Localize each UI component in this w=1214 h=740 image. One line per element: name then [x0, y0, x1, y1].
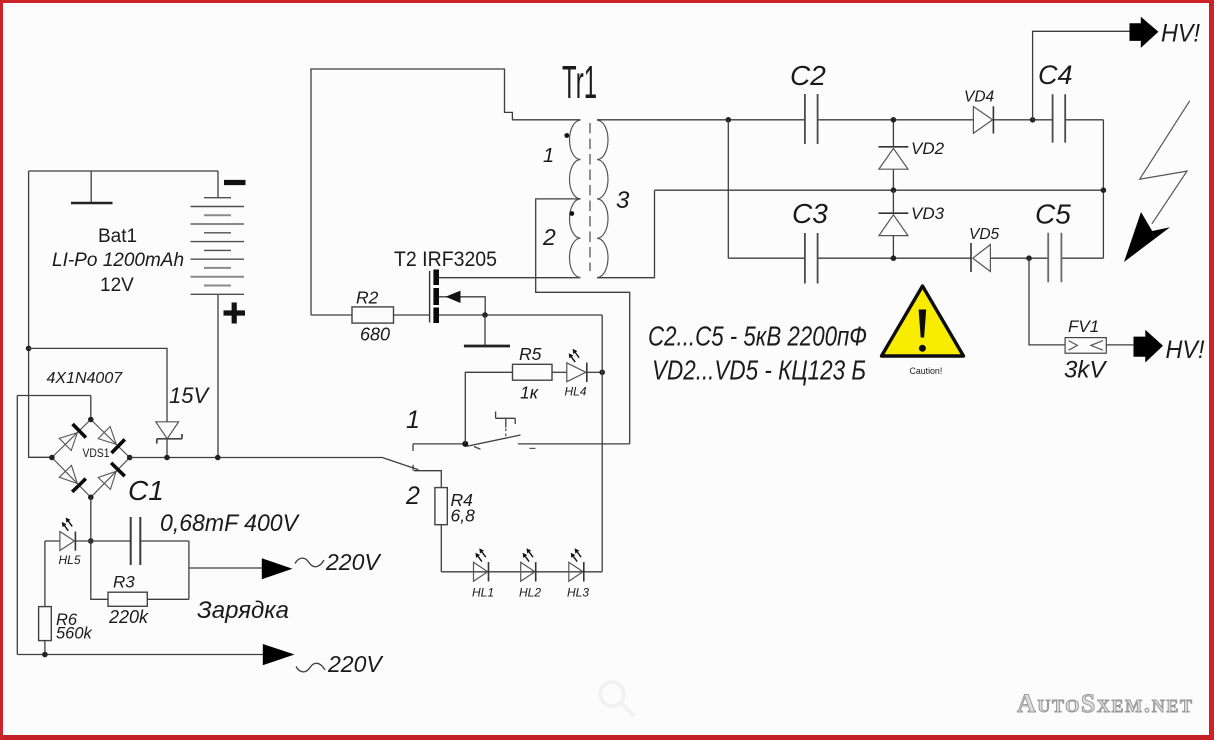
wire left outer drop	[29, 171, 52, 457]
diode VD5	[969, 226, 1000, 272]
node HL4 junction	[599, 370, 605, 376]
svg-text:6,8: 6,8	[451, 506, 476, 526]
svg-text:LI-Po 1200mAh: LI-Po 1200mAh	[52, 250, 184, 271]
zener VD 15V	[156, 383, 211, 458]
winding 2	[570, 199, 581, 278]
LED HL3	[567, 548, 589, 599]
svg-text:HL1: HL1	[472, 586, 494, 600]
svg-text:VD5: VD5	[969, 226, 1000, 243]
wire FV1 to HV	[1106, 344, 1133, 346]
LED HL4	[565, 349, 603, 399]
svg-text:C5: C5	[1035, 199, 1071, 230]
svg-text:3: 3	[616, 187, 630, 214]
LED HL5	[45, 518, 91, 568]
arrow HV mid	[1134, 330, 1205, 364]
node bridge top	[88, 417, 94, 423]
node battery-bus	[215, 455, 221, 461]
svg-text:VD3: VD3	[911, 204, 945, 223]
wire tap to switch pos1	[536, 199, 630, 444]
core	[589, 123, 591, 271]
wire cascade left drop	[727, 120, 729, 258]
ground (T2 source)	[464, 315, 510, 346]
resistor R5	[465, 344, 567, 444]
wire secondary top rail	[597, 120, 1103, 258]
svg-text:FV1: FV1	[1068, 317, 1099, 336]
node switch-R5 junction	[462, 441, 468, 447]
svg-text:VDS1: VDS1	[83, 446, 110, 460]
svg-text:R5: R5	[519, 344, 542, 364]
wire HV top	[1033, 31, 1130, 120]
svg-text:HV!: HV!	[1161, 20, 1200, 48]
svg-text:HV!: HV!	[1166, 336, 1205, 364]
svg-text:1: 1	[406, 406, 420, 434]
diode VD2	[879, 120, 945, 190]
capacitor C2	[790, 60, 826, 144]
node R6 bottom	[42, 652, 48, 658]
svg-text:15V: 15V	[169, 383, 210, 408]
svg-text:VD4: VD4	[964, 89, 995, 106]
arrow HV top	[1130, 17, 1201, 48]
diode VD3	[879, 190, 945, 258]
node middle rail right end	[1101, 187, 1107, 193]
svg-text:Caution!: Caution!	[910, 366, 943, 376]
svg-text:220V: 220V	[325, 549, 382, 575]
capacitor C3	[792, 198, 828, 284]
push-button SB	[467, 412, 630, 450]
node source junction	[482, 312, 488, 318]
wire bottom 220V line	[17, 654, 263, 656]
wire LED row	[441, 315, 602, 572]
svg-text:Tr1: Tr1	[562, 56, 597, 108]
node VD3 bottom	[891, 255, 897, 261]
wire bridge top stub	[90, 396, 92, 420]
node top rail tee	[726, 117, 732, 123]
node bridge right	[127, 455, 133, 461]
legend text	[648, 321, 867, 386]
svg-text:220k: 220k	[108, 607, 149, 627]
svg-text:HL2: HL2	[519, 586, 541, 600]
node VD4-C4	[1030, 117, 1036, 123]
svg-text:R2: R2	[356, 288, 379, 308]
svg-text:1к: 1к	[520, 383, 539, 403]
wire primary top loop	[311, 69, 581, 315]
svg-text:C4: C4	[1038, 60, 1073, 90]
svg-text:HL3: HL3	[567, 586, 589, 600]
svg-text:680: 680	[360, 325, 390, 345]
svg-text:1: 1	[543, 145, 554, 167]
svg-text:0,68mF 400V: 0,68mF 400V	[160, 510, 300, 537]
switch selector	[383, 406, 465, 510]
node VD5-C5	[1026, 255, 1032, 261]
wire C5 to FV1	[1029, 258, 1065, 345]
svg-text:VD2: VD2	[911, 139, 945, 158]
node zener-bus	[164, 455, 170, 461]
watermark magnifier	[600, 682, 634, 716]
arrow 220V upper	[262, 549, 383, 579]
wire charging output	[189, 567, 262, 569]
capacitor C1	[91, 475, 300, 565]
svg-text:220V: 220V	[327, 651, 384, 677]
fuse FV1	[1064, 317, 1107, 384]
resistor R2	[311, 288, 430, 345]
svg-text:AutoSxem.net: AutoSxem.net	[1017, 689, 1194, 718]
svg-text:VD2...VD5 - КЦ123 Б: VD2...VD5 - КЦ123 Б	[652, 355, 866, 386]
node VD2 top	[891, 117, 897, 123]
LED HL2	[519, 548, 541, 599]
capacitor C4	[1038, 60, 1073, 143]
wire battery top rail	[29, 170, 218, 172]
node bridge left	[49, 455, 55, 461]
bridge rectifier VDS1	[52, 420, 130, 498]
wire to zener top	[29, 348, 167, 421]
resistor R6	[39, 541, 93, 655]
svg-text:C2...C5 - 5кВ 2200пФ: C2...C5 - 5кВ 2200пФ	[648, 321, 867, 352]
node C1 junction	[88, 538, 94, 544]
winding 1	[570, 120, 581, 199]
transformer Tr1	[542, 56, 630, 278]
battery Bat1	[52, 171, 246, 458]
svg-text:HL4: HL4	[565, 385, 587, 399]
svg-text:2: 2	[542, 224, 556, 250]
resistor R4	[435, 488, 475, 572]
svg-text:4X1N4007: 4X1N4007	[47, 370, 124, 387]
caution triangle	[882, 286, 964, 376]
svg-text:R3: R3	[113, 573, 135, 592]
svg-text:C2: C2	[790, 60, 826, 91]
winding 3	[597, 120, 608, 277]
svg-text:3kV: 3kV	[1064, 357, 1107, 384]
svg-text:C3: C3	[792, 198, 828, 229]
transistor T2 IRF3205	[394, 248, 602, 323]
resistor R3 loop	[91, 541, 189, 627]
svg-text:560k: 560k	[56, 625, 93, 643]
svg-text:HL5: HL5	[59, 553, 81, 567]
node bridge bottom	[88, 495, 94, 501]
diode VD4	[964, 89, 995, 134]
svg-text:Bat1: Bat1	[98, 226, 137, 247]
lightning bolt	[1124, 101, 1190, 262]
wire far-left vertical	[17, 396, 91, 655]
node VD2 bottom / middle rail	[891, 187, 897, 193]
capacitor C5	[1035, 199, 1071, 283]
LED HL1	[472, 548, 494, 599]
svg-text:C1: C1	[128, 475, 164, 506]
svg-text:Зарядка: Зарядка	[197, 597, 289, 624]
svg-text:12V: 12V	[100, 275, 134, 296]
wire main bus	[130, 457, 383, 459]
ground (battery)	[71, 171, 113, 203]
wire bridge bottom drop	[90, 497, 92, 541]
arrow 220V lower	[263, 644, 385, 677]
svg-text:2: 2	[405, 482, 420, 510]
wire bottom rail	[728, 257, 1103, 259]
svg-text:T2 IRF3205: T2 IRF3205	[394, 248, 497, 271]
wire winding3 bottom to middle rail	[597, 190, 1103, 278]
node minus-junction	[26, 346, 32, 352]
